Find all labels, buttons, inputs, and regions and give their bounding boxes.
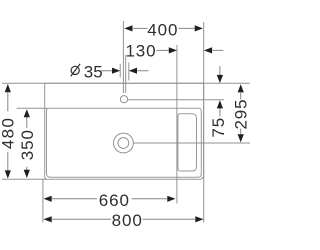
extension line bottom left vertical (42, 180, 44, 223)
divider extension line (176, 45, 178, 204)
dim 75 line (219, 66, 221, 117)
svg-text:660: 660 (99, 191, 130, 210)
arrow 400 left (124, 25, 132, 31)
extension line inner rim left (17, 107, 48, 109)
svg-text:400: 400 (147, 21, 178, 40)
arrow 75 up-pointing (217, 100, 223, 108)
arrow 660 right (167, 196, 175, 202)
arrow 350 up (24, 109, 30, 117)
shelf panel (178, 114, 197, 171)
extension line right edge vertical (203, 22, 205, 223)
arrow 480 down (5, 170, 11, 178)
arrow 350 down (24, 170, 30, 178)
svg-text:75: 75 (209, 117, 228, 138)
dim 660 line (52, 198, 167, 200)
diameter symbol slash (71, 64, 80, 77)
dim 400 line (133, 27, 195, 29)
arrow d35 right-pointing (112, 68, 120, 74)
basin inner rim (47, 108, 202, 177)
dim d35 line (101, 70, 149, 72)
arrow 130 left-pointing (204, 47, 212, 53)
drain outer circle (114, 133, 134, 153)
extension line bottom edge left (2, 178, 47, 180)
arrow 480 up (5, 84, 11, 92)
dim 295 line (240, 93, 242, 134)
svg-text:130: 130 (125, 42, 156, 61)
faucet centre double line left (122, 21, 124, 93)
basin outer outline (45, 83, 204, 179)
tick diameter right (128, 63, 130, 81)
arrow 295 down (238, 134, 244, 142)
drain inner circle (118, 138, 129, 149)
dim 350 line (26, 117, 28, 171)
arrow 130 right-pointing (169, 47, 177, 53)
arrow 400 right (195, 25, 203, 31)
svg-text:295: 295 (232, 98, 251, 129)
dim 130 line (157, 49, 224, 51)
arrow 660 left (44, 196, 52, 202)
svg-text:35: 35 (84, 62, 103, 81)
svg-text:350: 350 (18, 129, 37, 160)
faucet hole (120, 96, 127, 103)
tick diameter left (119, 64, 121, 78)
svg-text:800: 800 (112, 211, 143, 230)
arrow 800 right (195, 216, 203, 222)
leader drain (133, 142, 250, 144)
arrow 295 up (238, 84, 244, 92)
diameter symbol circle (71, 66, 79, 74)
arrow 800 left (44, 216, 52, 222)
arrow d35 left-pointing (129, 68, 137, 74)
dim 480 line (7, 93, 9, 171)
arrow 75 down-pointing (217, 75, 223, 83)
svg-text:480: 480 (0, 117, 18, 150)
faucet centre double line right (125, 55, 127, 93)
dim 800 line (52, 218, 195, 220)
extension line top edge (2, 82, 250, 84)
leader faucet (128, 99, 225, 101)
